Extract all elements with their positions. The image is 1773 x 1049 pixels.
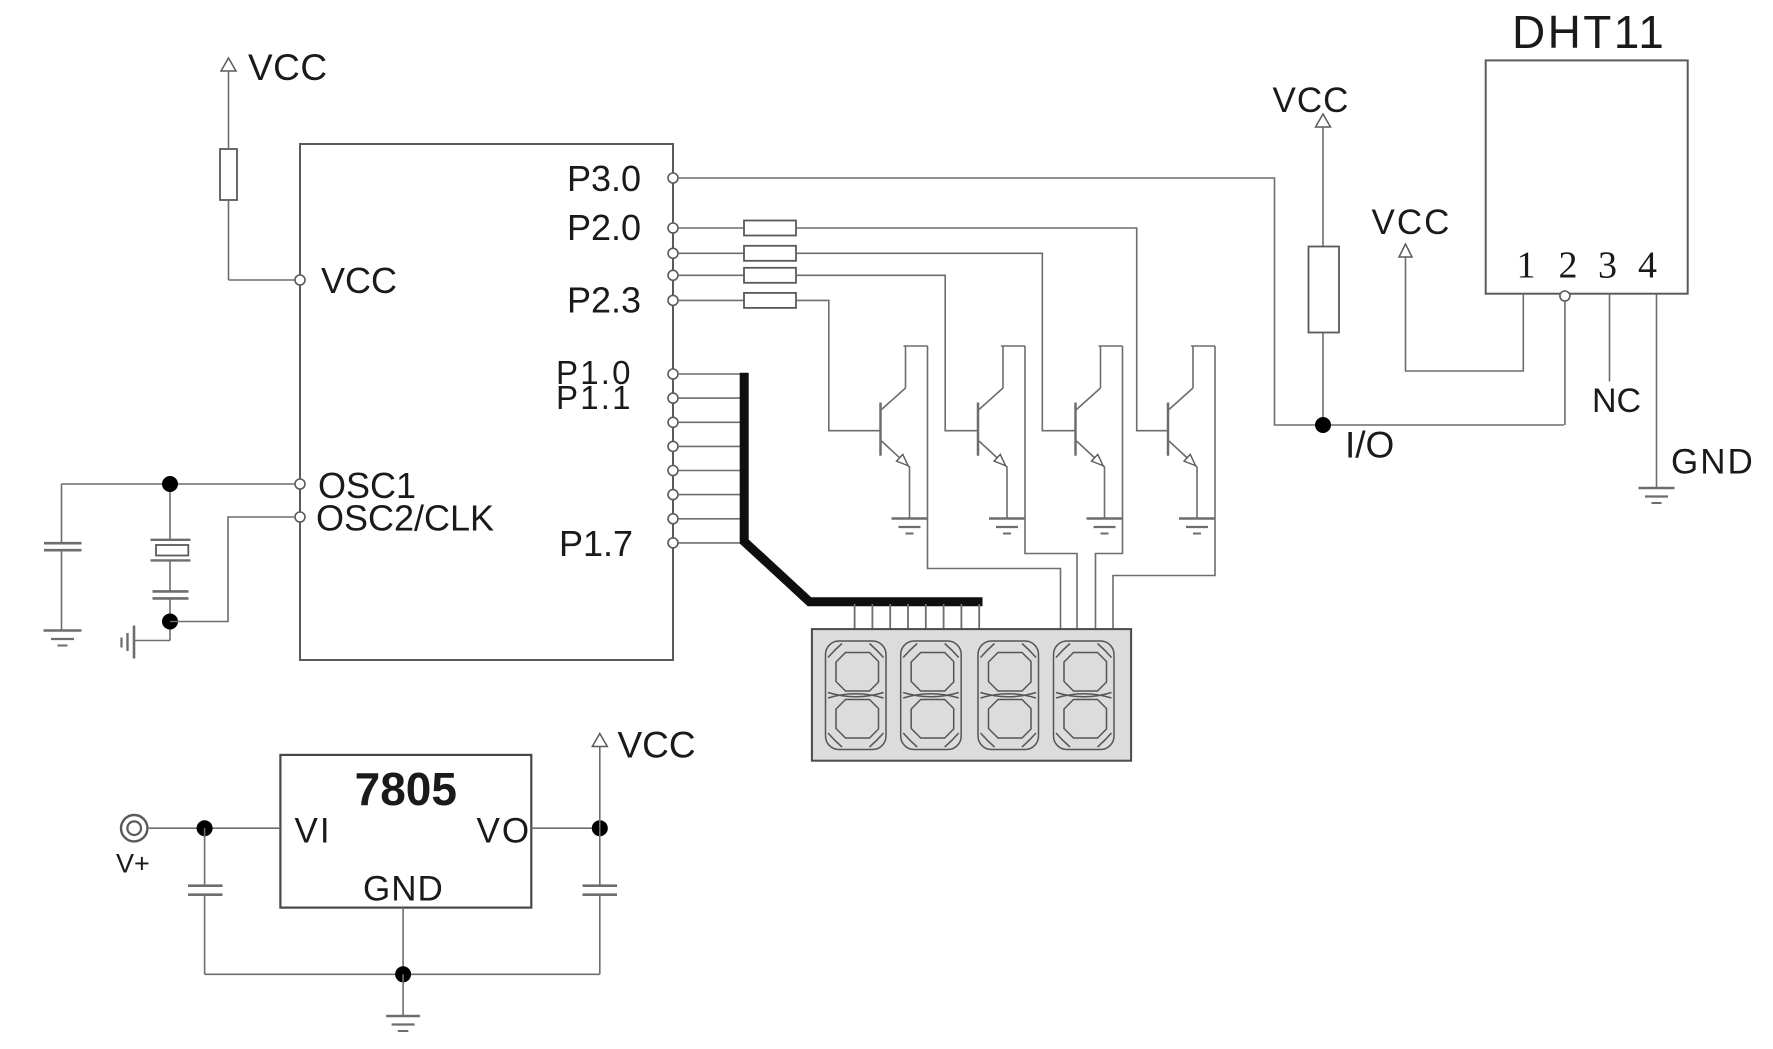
svg-text:7805: 7805 [355,763,457,815]
wire segment lead [978,604,980,629]
wire [599,828,601,884]
wire [61,484,63,542]
resistor R3 [744,221,796,236]
7-seg digit 3 [978,641,1039,750]
svg-text:NC: NC [1592,382,1641,420]
wire segment lead [943,604,945,629]
svg-text:1: 1 [1517,245,1536,287]
wire [678,227,744,229]
wire OSC2 net [170,517,295,622]
wire P1.2 [678,421,740,423]
junction [197,820,213,836]
wire segment lead [907,604,909,629]
transistor Q2 [978,346,1025,519]
wire segment lead [889,604,891,629]
svg-text:VCC: VCC [321,260,397,301]
wire P1.0 [678,373,740,375]
junction [162,476,178,492]
wire [169,492,171,539]
wire segment lead [871,604,873,629]
wire P1.1 [678,397,740,399]
svg-text:P3.0: P3.0 [567,158,641,199]
wire [402,974,404,1015]
pin P1.3 of U1 [668,441,678,451]
junction [395,966,411,982]
svg-text:P1.7: P1.7 [559,523,633,564]
wire VO [531,827,600,829]
junction I/O node [1315,417,1331,433]
VCC power symbol (top left) [221,58,236,71]
capacitor C3 [188,884,223,887]
wire [599,746,601,829]
resistor R5 [744,268,796,283]
pin P1.2 of U1 [668,417,678,427]
ground [1639,487,1675,489]
pin OSC2/CLK of U1 [295,512,305,522]
svg-text:VO: VO [477,812,532,851]
wire segment lead [925,604,927,629]
pin 2 of DHT11 [1560,291,1570,301]
svg-text:DHT11: DHT11 [1512,6,1666,58]
wire collector Q3 to display digit [1096,346,1123,629]
crystal Y1 [151,539,191,541]
VCC power symbol (output) [592,734,607,747]
connector V+ input [121,815,147,841]
wire pin4 to ground [1656,294,1658,488]
svg-text:P2.0: P2.0 [567,207,641,248]
pin P1.5 of U1 [668,490,678,500]
wire P1.5 [678,494,740,496]
wire [678,252,744,254]
MCU U1 box [300,144,673,660]
pin P1.6 of U1 [668,514,678,524]
wire [169,599,171,641]
ground [386,1015,420,1017]
wire P1.4 [678,470,740,472]
wire [678,299,744,301]
pin P1.4 of U1 [668,466,678,476]
resistor R6 [744,293,796,308]
wire pin3 NC [1609,294,1611,382]
svg-text:VCC: VCC [248,47,328,88]
thick bus wire [744,373,982,602]
pin OSC1 of U1 [295,479,305,489]
wire [169,560,171,590]
svg-text:GND: GND [1671,443,1755,482]
wire to transistor base [796,253,1076,430]
ground (emitter Q3) [1087,519,1123,534]
wire P1.3 [678,445,740,447]
resistor R2 [1309,247,1340,333]
7-segment display DS1 body [812,629,1131,761]
resistor R4 [744,246,796,261]
wire pin2 to I/O [1564,301,1566,425]
wire VI [147,827,280,829]
wire GND pin [402,908,404,975]
svg-text:3: 3 [1598,245,1617,287]
pin P2.2 of U1 [668,270,678,280]
svg-text:VCC: VCC [618,725,696,766]
svg-text:VCC: VCC [1273,81,1350,120]
junction VCC node [592,820,608,836]
pin VCC of U1 [295,275,305,285]
7-seg digit 2 [901,641,962,750]
pin P1.0 of U1 [668,369,678,379]
transistor Q3 [1076,346,1123,519]
ground [44,629,82,631]
wire collector Q2 to display digit [1025,346,1077,629]
svg-text:I/O: I/O [1345,425,1394,466]
wire P1.7 [678,542,740,544]
wire pin1 to VCC [1406,257,1524,371]
svg-text:2: 2 [1559,245,1578,287]
wire to transistor base [796,228,1168,431]
wire [228,200,230,280]
pin P2.3 of U1 [668,295,678,305]
wire [1322,333,1324,418]
pin P2.1 of U1 [668,248,678,258]
wire [599,896,601,975]
svg-text:P2.3: P2.3 [567,280,641,321]
svg-text:GND: GND [363,870,444,909]
wire [229,279,296,281]
wire [204,828,206,884]
wire [61,551,63,631]
wire OSC1 net [62,483,296,485]
wire P3.0 to I/O net [678,178,1564,425]
wire segment lead [960,604,962,629]
capacitor C1 [44,542,82,545]
junction [162,614,178,630]
svg-text:V+: V+ [116,849,150,879]
transistor Q1 [881,346,928,519]
wire segment lead [854,604,856,629]
transistor Q4 [1168,346,1215,519]
wire [1322,127,1324,247]
svg-text:P1.1: P1.1 [556,379,633,416]
wire ground rail [205,973,600,975]
wire to transistor base [796,300,881,430]
wire [134,640,170,642]
wire [678,274,744,276]
capacitor C4 [583,884,618,887]
7-seg digit 1 [826,641,887,750]
regulator 7805 U3 box [280,755,531,908]
svg-text:OSC2/CLK: OSC2/CLK [316,498,494,539]
svg-text:VI: VI [295,812,332,851]
ground (rotated) [133,626,136,659]
resistor R1 [220,149,237,200]
pin P2.0 of U1 [668,223,678,233]
7-seg digit 4 [1054,641,1115,750]
capacitor C2 [153,590,189,593]
ground (emitter Q4) [1179,519,1215,534]
pin P1.1 of U1 [668,393,678,403]
wire to transistor base [796,275,978,430]
pin P1.7 of U1 [668,538,678,548]
ground (emitter Q2) [989,519,1025,534]
wire [228,71,230,149]
wire [204,896,206,975]
ground (emitter Q1) [892,519,928,534]
svg-text:4: 4 [1638,245,1657,287]
svg-text:VCC: VCC [1372,203,1452,242]
wire P1.6 [678,518,740,520]
wire collector Q4 to display digit [1113,346,1215,629]
wire collector Q1 to display digit [928,346,1061,629]
DHT11 sensor U2 box [1486,60,1688,293]
pin P3.0 of U1 [668,173,678,183]
